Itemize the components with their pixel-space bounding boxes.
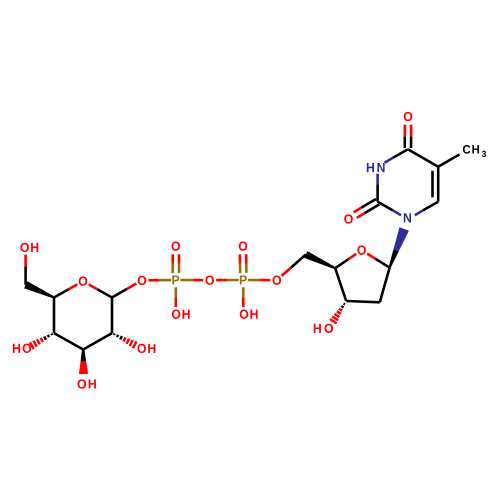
- methyl subscript 3 label: [482, 151, 486, 157]
- C4 hydroxyl H label (HO): [13, 344, 20, 353]
- methyl C label (CH3): [463, 145, 470, 154]
- wedge bond C1' - N1 (glycosidic): [389, 227, 409, 268]
- P1 hydroxyl O label (OH): [172, 310, 181, 319]
- bond glucose C5 - C4: [53, 298, 56, 334]
- P1 terminal O label: [172, 242, 181, 251]
- bond ring O4' - C1': [367, 254, 390, 268]
- C2 hydroxyl O label (OH): [137, 344, 146, 353]
- inner line of C5=C6 double bond: [431, 171, 434, 198]
- bond bridging O - P2: [216, 279, 239, 282]
- thymine N3 label (HN): [377, 163, 384, 172]
- double bond P1=O: [173, 254, 179, 273]
- bond glucose C1 - C2: [111, 298, 114, 334]
- thymine N3 H label (HN): [367, 163, 374, 172]
- bond C6 - C5 (outer line of C5=C6): [437, 167, 440, 202]
- bond N1 - C6: [415, 202, 438, 216]
- hashed bond C3' - O3'H: [330, 304, 345, 324]
- P1 hydroxyl H label (OH): [182, 310, 189, 319]
- P2 terminal O label: [239, 242, 248, 251]
- bond N1 - C2: [378, 202, 401, 216]
- hashed bond glucose C2 - O2H: [114, 334, 137, 349]
- hashed bond glucose C4 - O4H: [30, 334, 52, 349]
- bond P1 - bridging O: [180, 279, 203, 282]
- glycosidic O1 label: [138, 276, 147, 285]
- bond C3' - C4': [335, 268, 346, 301]
- C4 hydroxyl O label (HO): [23, 344, 32, 353]
- glucose ring O label: [79, 277, 88, 286]
- bond N3 - C4: [385, 149, 408, 163]
- bond glucose C6 - O6: [24, 255, 27, 285]
- double bond C4=O4: [405, 125, 411, 148]
- C2 hydroxyl H label (OH): [148, 344, 155, 353]
- bridging O label: [205, 276, 214, 285]
- bond P2 - O(H): [242, 287, 245, 307]
- hydroxyl O of C6-OH label: [20, 243, 29, 252]
- thymine O2 carbonyl label: [344, 214, 353, 223]
- phosphorus P2 label: [240, 275, 247, 284]
- C3' hydroxyl H label (HO): [314, 324, 321, 333]
- P2 hydroxyl O label (OH): [240, 310, 249, 319]
- thymine N1 label: [404, 213, 411, 222]
- bond C1' - C2': [380, 268, 390, 303]
- bond C5 - CH3: [438, 154, 459, 166]
- bond C2' - C3': [346, 301, 380, 302]
- C3 hydroxyl O label (OH): [78, 379, 87, 388]
- bond P1 - O(H): [175, 287, 178, 307]
- ester O5' label: [273, 276, 282, 285]
- ribose ring O4' label: [357, 246, 366, 255]
- wedge bond glucose C5 - C6 (CH2OH): [24, 281, 54, 298]
- phosphorus P1 label: [172, 275, 179, 284]
- double bond C2=O2: [354, 199, 380, 218]
- bond glucose ring O - C1: [89, 284, 112, 297]
- bond glucose ring O - C5: [54, 284, 77, 297]
- bond O5' - C5': [282, 255, 306, 276]
- C3 hydroxyl H label (OH): [89, 379, 96, 388]
- wedge bond C4' - C5': [304, 251, 336, 269]
- bond C2 - N3: [376, 174, 379, 202]
- wedge bond glucose C3 - O3H: [79, 350, 88, 375]
- C3' hydroxyl O label (HO): [325, 324, 334, 333]
- bond glucose C1 - glycosidic O1: [112, 284, 136, 298]
- bond C4' - ring O4': [335, 254, 356, 268]
- methyl H label (CH3): [472, 145, 479, 153]
- bond glucose C2 - C3: [83, 333, 112, 349]
- P2 hydroxyl H label (OH): [250, 310, 257, 319]
- bond glucose C4 - C3: [54, 333, 83, 349]
- bond O1 - P1: [149, 279, 172, 282]
- double bond P2=O: [240, 254, 247, 273]
- thymine O4 carbonyl label: [404, 112, 413, 121]
- bond C4 - C5: [408, 149, 438, 167]
- hydroxyl H of C6-OH label: [31, 243, 38, 252]
- bond P2 - ester O5': [248, 279, 270, 282]
